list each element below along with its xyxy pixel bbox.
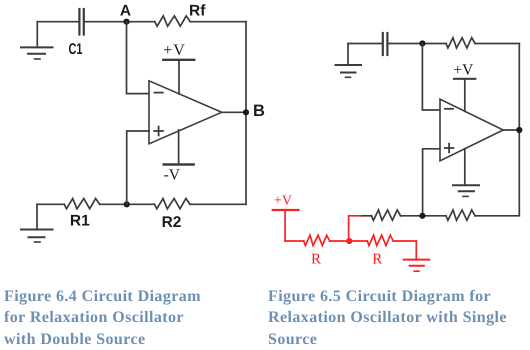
wire (feedback resistor to right rail) bbox=[475, 43, 519, 45]
wire (op-amp output to right rail, right circuit) bbox=[503, 129, 519, 131]
plus sign (non-inverting input marker) bbox=[154, 127, 163, 136]
label A bbox=[120, 3, 131, 20]
wire (op-amp output to node B) bbox=[222, 111, 246, 113]
resistor R2 bbox=[155, 199, 191, 209]
ground (top-left, left circuit) bbox=[21, 22, 53, 59]
wire (right rail, right circuit) bbox=[518, 44, 520, 216]
op-amp U1 (left circuit) bbox=[149, 81, 222, 144]
svg-text:-V: -V bbox=[164, 167, 181, 184]
svg-text:+V: +V bbox=[163, 42, 186, 59]
resistor Rf bbox=[155, 16, 191, 26]
node (red junction dot) bbox=[346, 238, 352, 244]
caption Figure 6.4 bbox=[4, 286, 254, 350]
node (bottom junction dot, right circuit) bbox=[419, 213, 425, 219]
label +V (red) bbox=[274, 194, 292, 209]
wire (non-inverting input to left rail, right circuit) bbox=[423, 149, 440, 216]
wire (right rail, top corner down to bottom corner) bbox=[245, 22, 247, 205]
wire (junction up to non-inverting input) bbox=[127, 131, 149, 204]
label Rf bbox=[189, 3, 206, 20]
wire (ground to capacitor, right circuit) bbox=[348, 43, 382, 45]
wire (Rf to right rail corner) bbox=[190, 21, 246, 23]
resistor (bottom left black, right circuit) bbox=[372, 210, 401, 220]
node (R1/R2 junction dot) bbox=[124, 201, 130, 207]
resistor R1 bbox=[64, 199, 100, 209]
wire (red +V to resistor R) bbox=[285, 240, 304, 242]
wire (bottom black resistor to bottom node, right circuit) bbox=[401, 215, 446, 217]
+V supply (red) bbox=[273, 210, 299, 241]
label R (red left) bbox=[311, 252, 321, 268]
svg-text:R2: R2 bbox=[162, 214, 182, 231]
label B bbox=[253, 102, 265, 120]
label R1 bbox=[70, 213, 90, 230]
label R (red right) bbox=[372, 252, 382, 268]
capacitor (right circuit) bbox=[383, 33, 388, 55]
caption Figure 6.5 bbox=[268, 286, 530, 350]
minus sign (inverting input marker, right circuit) bbox=[445, 108, 453, 110]
node A (junction dot) bbox=[123, 19, 129, 25]
node (top junction dot, right circuit) bbox=[419, 40, 425, 46]
resistor (feedback, right circuit) bbox=[446, 38, 475, 48]
svg-text:R: R bbox=[311, 252, 321, 268]
node (output junction dot, right circuit) bbox=[516, 127, 522, 133]
resistor R (red left) bbox=[304, 235, 330, 245]
wire (node A down to inverting input) bbox=[127, 22, 150, 94]
svg-text:Rf: Rf bbox=[189, 3, 206, 20]
svg-text:R: R bbox=[372, 252, 382, 268]
label R2 bbox=[162, 214, 182, 231]
wire (capacitor C1 to node A) bbox=[85, 21, 155, 23]
wire (bottom right resistor to right rail, right circuit) bbox=[475, 215, 519, 217]
-V supply (left circuit) bbox=[164, 130, 194, 165]
+V supply (left circuit) bbox=[163, 60, 194, 94]
wire (red left resistor to red junction) bbox=[330, 240, 368, 242]
op-amp U2 (right circuit) bbox=[440, 99, 503, 161]
label +V (left circuit) bbox=[163, 42, 186, 59]
wire (red junction up to black bottom wire) bbox=[349, 216, 361, 241]
svg-text:R1: R1 bbox=[70, 213, 90, 230]
label C1 bbox=[69, 41, 83, 58]
resistor R (red right) bbox=[367, 235, 393, 245]
ground (top-left, right circuit) bbox=[336, 44, 362, 78]
label -V (left circuit) bbox=[164, 167, 181, 184]
label +V (right circuit) bbox=[453, 62, 474, 79]
svg-text:+V: +V bbox=[453, 62, 474, 79]
ground (red) bbox=[404, 260, 430, 272]
wire (R2 to right rail bottom corner) bbox=[190, 203, 246, 205]
ground (bottom-left, left circuit) bbox=[21, 204, 53, 242]
plus sign (non-inverting input marker, right circuit) bbox=[445, 144, 454, 153]
wire (red right resistor to red ground) bbox=[393, 241, 416, 260]
svg-text:B: B bbox=[253, 102, 265, 120]
svg-text:A: A bbox=[120, 3, 131, 20]
wire (top node down to inverting input, right circuit) bbox=[422, 44, 440, 111]
svg-text:+V: +V bbox=[274, 194, 292, 209]
minus sign (inverting input marker) bbox=[155, 92, 163, 94]
wire (top-left ground to capacitor C1) bbox=[37, 21, 78, 23]
resistor (bottom right black, right circuit) bbox=[446, 210, 475, 220]
wire (capacitor to top node, right circuit) bbox=[389, 43, 446, 45]
wire (R1 to junction node) bbox=[100, 203, 155, 205]
ground (op-amp negative supply, right circuit) bbox=[453, 149, 479, 197]
wire (bottom-left ground to resistor R1) bbox=[37, 203, 64, 205]
capacitor C1 bbox=[79, 9, 83, 35]
node B (junction dot) bbox=[243, 109, 249, 115]
svg-text:C1: C1 bbox=[69, 41, 83, 58]
wire (bottom black segment left, right circuit) bbox=[360, 215, 372, 217]
+V supply (right circuit) bbox=[454, 79, 475, 112]
